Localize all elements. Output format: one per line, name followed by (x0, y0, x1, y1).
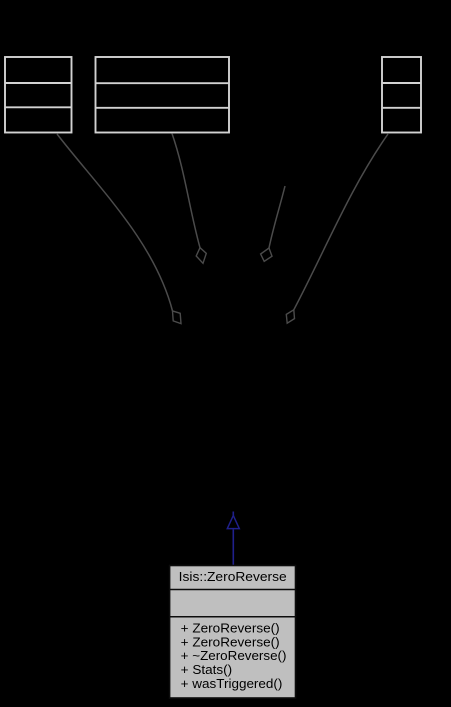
class box B (top-middle, 3 compartments) (96, 57, 230, 133)
inheritance edge line to Isis::ZeroReverse (232, 530, 234, 566)
aggregation edge from box C (294, 134, 388, 310)
inheritance hollow triangle arrowhead (227, 516, 239, 529)
diamond arrowhead on edge D (286, 310, 294, 323)
svg-text:Isis::ZeroReverse: Isis::ZeroReverse (179, 569, 287, 584)
diamond arrowhead on edge B (196, 248, 206, 264)
class box A (top-left, 3 compartments) (5, 57, 72, 133)
inheritance edge stub above arrowhead (midnightblue) (232, 512, 234, 517)
class node Isis::ZeroReverse (filled) (170, 566, 296, 699)
diamond arrowhead on edge A (173, 311, 182, 324)
svg-text:+ Stats(): + Stats() (181, 662, 233, 677)
svg-text:+ ZeroReverse(): + ZeroReverse() (181, 634, 280, 649)
svg-text:+ wasTriggered(): + wasTriggered() (181, 676, 283, 691)
aggregation edge from box A (57, 134, 173, 311)
aggregation edge from hidden middle node (269, 186, 285, 248)
class box C (top-right, 3 compartments) (382, 57, 421, 133)
diamond arrowhead on edge C (261, 248, 272, 261)
aggregation edge from box B (172, 134, 200, 248)
svg-text:+ ~ZeroReverse(): + ~ZeroReverse() (181, 648, 287, 663)
